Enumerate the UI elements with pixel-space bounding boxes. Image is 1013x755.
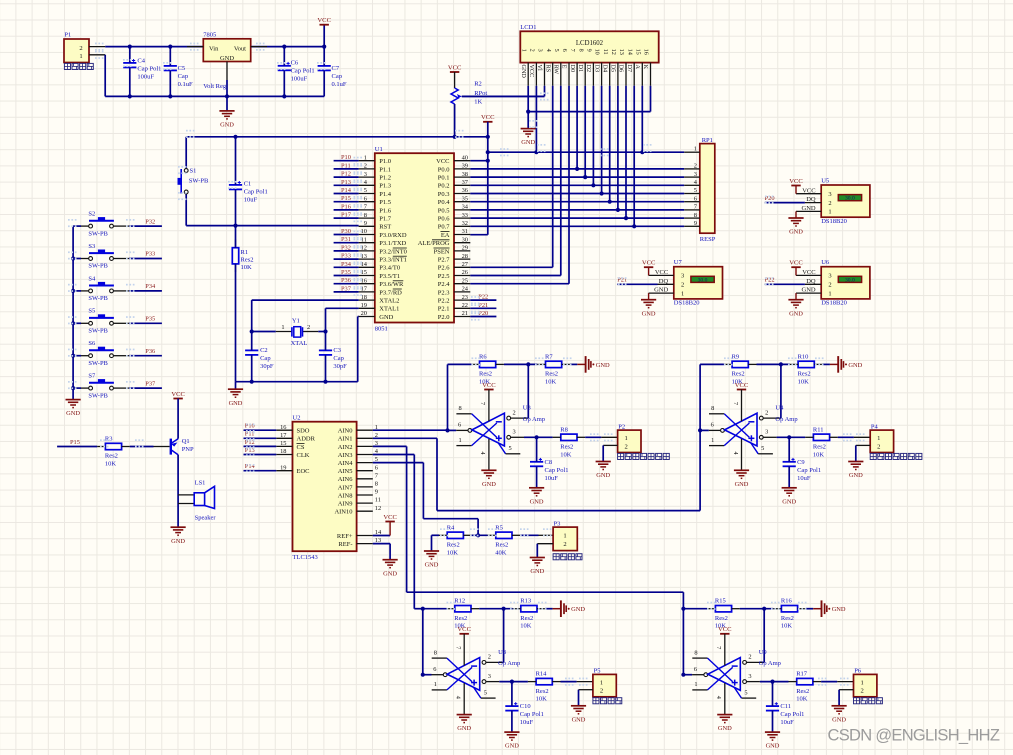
svg-text:R17: R17 — [796, 671, 808, 678]
svg-text:P35: P35 — [341, 269, 351, 276]
svg-text:10K: 10K — [447, 549, 459, 556]
svg-text:Op Amp: Op Amp — [775, 416, 797, 423]
svg-text:S5: S5 — [88, 308, 95, 315]
svg-text:R14: R14 — [536, 671, 548, 678]
svg-text:6: 6 — [694, 666, 697, 673]
svg-text:E: E — [561, 65, 568, 69]
svg-text:P1.3: P1.3 — [379, 183, 391, 190]
svg-text:P36: P36 — [341, 277, 351, 284]
svg-text:U6: U6 — [821, 259, 830, 266]
svg-text:8: 8 — [694, 212, 697, 219]
svg-text:2: 2 — [600, 688, 603, 695]
svg-text:Op Amp: Op Amp — [523, 416, 545, 423]
svg-text:8: 8 — [375, 481, 378, 488]
svg-text:30.0: 30.0 — [845, 196, 855, 202]
svg-text:40: 40 — [462, 154, 468, 161]
svg-text:Cap: Cap — [178, 73, 188, 80]
svg-text:9: 9 — [586, 49, 593, 52]
svg-text:GND: GND — [520, 65, 527, 79]
svg-text:15: 15 — [280, 440, 286, 447]
svg-text:P3: P3 — [554, 520, 561, 527]
svg-text:R2: R2 — [474, 81, 482, 88]
svg-text:1: 1 — [711, 437, 714, 444]
svg-text:2: 2 — [488, 654, 491, 661]
svg-text:R3: R3 — [105, 436, 113, 443]
svg-text:P30: P30 — [341, 228, 351, 235]
svg-text:SW-PB: SW-PB — [88, 392, 108, 399]
svg-text:10K: 10K — [781, 623, 793, 630]
svg-text:GND: GND — [482, 481, 496, 488]
svg-text:30.0: 30.0 — [845, 277, 855, 283]
svg-text:GND: GND — [220, 122, 234, 129]
svg-text:GND: GND — [383, 570, 397, 577]
svg-text:100uF: 100uF — [137, 74, 154, 81]
svg-text:Res2: Res2 — [454, 615, 467, 622]
svg-text:GND: GND — [848, 362, 862, 369]
svg-text:R4: R4 — [447, 524, 455, 531]
svg-text:P0.1: P0.1 — [438, 175, 450, 182]
svg-text:14: 14 — [626, 49, 633, 55]
svg-text:Res2: Res2 — [798, 371, 811, 378]
svg-text:VCC: VCC — [436, 158, 449, 165]
svg-text:Cap Pol1: Cap Pol1 — [291, 67, 315, 74]
svg-text:GND: GND — [425, 562, 439, 569]
svg-text:VCC: VCC — [802, 269, 815, 276]
svg-text:P3.3/INT1: P3.3/INT1 — [379, 257, 407, 264]
svg-text:GND: GND — [766, 743, 780, 750]
svg-text:8: 8 — [434, 649, 437, 656]
svg-text:P32: P32 — [341, 244, 351, 251]
svg-text:1: 1 — [828, 290, 831, 297]
svg-text:C8: C8 — [545, 459, 553, 466]
svg-text:VCC: VCC — [642, 260, 656, 267]
svg-text:U4: U4 — [775, 405, 784, 412]
svg-text:10K: 10K — [545, 378, 557, 385]
svg-text:P1.0: P1.0 — [379, 158, 391, 165]
svg-text:3: 3 — [765, 429, 768, 436]
svg-text:10K: 10K — [520, 623, 532, 630]
svg-text:D0: D0 — [569, 65, 576, 73]
svg-text:R6: R6 — [479, 353, 487, 360]
svg-text:P4: P4 — [871, 423, 879, 430]
svg-text:P33: P33 — [145, 251, 155, 258]
svg-text:GND: GND — [521, 139, 535, 146]
svg-text:AIN1: AIN1 — [338, 436, 353, 443]
svg-text:Res2: Res2 — [447, 542, 460, 549]
svg-text:12: 12 — [375, 505, 381, 512]
svg-text:Res2: Res2 — [813, 444, 826, 451]
svg-text:Cap: Cap — [332, 73, 342, 80]
svg-text:S6: S6 — [88, 340, 96, 347]
svg-text:GND: GND — [802, 205, 816, 212]
svg-text:P15: P15 — [341, 195, 351, 202]
svg-text:D3: D3 — [593, 65, 600, 73]
svg-text:28: 28 — [462, 253, 468, 260]
svg-text:P6: P6 — [854, 668, 862, 675]
svg-text:S3: S3 — [88, 243, 95, 250]
svg-text:10K: 10K — [536, 696, 548, 703]
svg-text:REF+: REF+ — [337, 533, 353, 540]
svg-text:C6: C6 — [291, 59, 299, 66]
svg-text:26: 26 — [462, 269, 468, 276]
svg-text:GND: GND — [718, 725, 732, 732]
svg-text:P16: P16 — [341, 203, 351, 210]
svg-text:3: 3 — [537, 49, 544, 52]
svg-text:D6: D6 — [618, 65, 625, 73]
svg-text:2: 2 — [681, 282, 684, 289]
svg-text:P0.2: P0.2 — [438, 183, 450, 190]
svg-text:13: 13 — [618, 49, 625, 55]
svg-text:VCC: VCC — [718, 626, 732, 633]
svg-text:P20: P20 — [478, 310, 488, 317]
svg-text:P36: P36 — [145, 348, 155, 355]
svg-text:DQ: DQ — [806, 196, 816, 203]
svg-text:DQ: DQ — [806, 278, 816, 285]
svg-text:35: 35 — [462, 195, 468, 202]
svg-text:8: 8 — [711, 405, 714, 412]
svg-text:21: 21 — [462, 310, 468, 317]
svg-text:10uF: 10uF — [244, 196, 258, 203]
svg-text:3: 3 — [828, 273, 831, 280]
svg-text:GND: GND — [171, 538, 185, 545]
svg-text:P22: P22 — [478, 294, 488, 301]
svg-text:GND: GND — [789, 229, 803, 236]
svg-text:8: 8 — [364, 212, 367, 219]
svg-text:2: 2 — [694, 163, 697, 170]
svg-text:AIN4: AIN4 — [338, 460, 354, 467]
svg-text:10: 10 — [594, 49, 601, 55]
svg-text:GND: GND — [457, 725, 471, 732]
svg-text:1: 1 — [364, 154, 367, 161]
svg-text:3: 3 — [488, 673, 491, 680]
svg-text:20: 20 — [361, 310, 367, 317]
svg-text:1K: 1K — [474, 98, 482, 105]
svg-text:P1.1: P1.1 — [379, 166, 391, 173]
svg-text:29: 29 — [462, 245, 468, 252]
svg-text:D5: D5 — [610, 65, 617, 73]
svg-text:5: 5 — [364, 187, 367, 194]
svg-text:2: 2 — [625, 443, 628, 450]
svg-text:U9: U9 — [759, 649, 767, 656]
svg-text:8: 8 — [459, 405, 462, 412]
svg-text:CSDN @ENGLISH_HHZ: CSDN @ENGLISH_HHZ — [828, 727, 1000, 745]
svg-text:DS18B20: DS18B20 — [821, 218, 847, 225]
svg-text:10K: 10K — [105, 461, 117, 468]
svg-text:VCC: VCC — [528, 65, 535, 78]
svg-text:1: 1 — [694, 145, 697, 152]
svg-text:Cap Pol1: Cap Pol1 — [244, 188, 268, 195]
svg-text:10uF: 10uF — [780, 719, 794, 726]
svg-text:VCC: VCC — [482, 382, 496, 389]
svg-text:P32: P32 — [145, 218, 155, 225]
svg-text:Res2: Res2 — [479, 371, 492, 378]
svg-text:Cap Pol1: Cap Pol1 — [520, 711, 544, 718]
svg-text:6: 6 — [458, 422, 461, 429]
svg-text:S7: S7 — [88, 373, 96, 380]
svg-text:19: 19 — [280, 464, 286, 471]
svg-text:10uF: 10uF — [520, 719, 534, 726]
svg-text:2: 2 — [529, 49, 536, 52]
svg-text:5: 5 — [744, 690, 747, 697]
svg-text:Res2: Res2 — [715, 615, 728, 622]
svg-text:P1.7: P1.7 — [379, 216, 391, 223]
svg-text:10K: 10K — [796, 696, 808, 703]
svg-text:30.0: 30.0 — [698, 277, 708, 283]
svg-text:D1: D1 — [577, 65, 584, 73]
svg-text:XTAL2: XTAL2 — [379, 298, 399, 305]
svg-text:U5: U5 — [821, 177, 829, 184]
svg-text:RP1: RP1 — [702, 137, 713, 144]
svg-text:GND: GND — [642, 310, 656, 317]
svg-text:2: 2 — [860, 688, 863, 695]
svg-text:30pF: 30pF — [333, 363, 347, 370]
svg-text:2: 2 — [877, 443, 880, 450]
svg-text:SW-PB: SW-PB — [189, 177, 209, 184]
svg-text:Op Amp: Op Amp — [759, 660, 781, 667]
svg-text:S2: S2 — [88, 211, 95, 218]
svg-text:GND: GND — [789, 310, 803, 317]
svg-text:P31: P31 — [341, 236, 351, 243]
svg-text:P1: P1 — [64, 31, 71, 38]
svg-text:37: 37 — [462, 179, 469, 186]
svg-text:AIN0: AIN0 — [338, 428, 353, 435]
svg-text:RW: RW — [553, 65, 560, 75]
svg-text:10K: 10K — [560, 451, 572, 458]
svg-text:D2: D2 — [585, 65, 592, 73]
svg-text:9: 9 — [364, 220, 367, 227]
svg-text:P17: P17 — [341, 212, 352, 219]
svg-text:7: 7 — [715, 646, 722, 649]
svg-text:10uF: 10uF — [797, 475, 811, 482]
svg-text:PSEN: PSEN — [434, 248, 450, 255]
svg-text:C11: C11 — [780, 703, 791, 710]
svg-text:Cap Pol1: Cap Pol1 — [545, 467, 569, 474]
svg-text:100uF: 100uF — [291, 75, 308, 82]
svg-text:D7: D7 — [626, 65, 633, 73]
svg-text:SW-PB: SW-PB — [88, 360, 108, 367]
svg-text:1: 1 — [434, 681, 437, 688]
svg-text:GND: GND — [802, 287, 816, 294]
svg-text:3: 3 — [513, 429, 516, 436]
svg-text:PNP: PNP — [182, 446, 194, 453]
svg-text:Volt Reg: Volt Reg — [203, 83, 227, 90]
svg-text:P5: P5 — [594, 668, 601, 675]
svg-text:C7: C7 — [332, 65, 340, 72]
svg-text:C10: C10 — [520, 703, 531, 710]
svg-text:C4: C4 — [137, 58, 145, 65]
svg-text:6: 6 — [694, 195, 697, 202]
svg-text:SW-PB: SW-PB — [88, 230, 108, 237]
svg-text:S4: S4 — [88, 275, 96, 282]
svg-text:CS: CS — [297, 444, 305, 451]
svg-text:P12: P12 — [341, 171, 351, 178]
svg-text:Res2: Res2 — [545, 371, 558, 378]
svg-text:3: 3 — [828, 191, 831, 198]
svg-text:A: A — [634, 65, 641, 70]
svg-text:DS18B20: DS18B20 — [821, 300, 847, 307]
svg-text:8051: 8051 — [375, 325, 388, 332]
svg-text:6: 6 — [711, 422, 714, 429]
svg-text:P2.4: P2.4 — [438, 281, 450, 288]
svg-text:C1: C1 — [244, 180, 252, 187]
svg-text:K: K — [642, 65, 649, 70]
svg-text:VCC: VCC — [481, 114, 495, 121]
svg-text:5: 5 — [761, 445, 764, 452]
svg-text:38: 38 — [462, 171, 468, 178]
svg-text:P0.4: P0.4 — [438, 199, 450, 206]
svg-text:3: 3 — [748, 673, 751, 680]
svg-text:25: 25 — [462, 277, 468, 284]
svg-text:P34: P34 — [145, 283, 156, 290]
svg-text:4: 4 — [715, 696, 722, 699]
svg-text:Res2: Res2 — [536, 688, 549, 695]
svg-text:XTAL1: XTAL1 — [379, 306, 399, 313]
svg-text:2: 2 — [765, 409, 768, 416]
svg-text:R16: R16 — [781, 598, 793, 605]
svg-text:11: 11 — [375, 497, 381, 504]
svg-text:1: 1 — [520, 49, 527, 52]
svg-text:P2.6: P2.6 — [438, 265, 450, 272]
svg-text:Res2: Res2 — [560, 444, 573, 451]
svg-text:REF-: REF- — [338, 541, 352, 548]
svg-text:ADDR: ADDR — [297, 436, 316, 443]
svg-text:P2: P2 — [618, 423, 625, 430]
svg-text:GND: GND — [505, 743, 519, 750]
svg-text:22: 22 — [462, 302, 468, 309]
svg-text:R12: R12 — [454, 598, 465, 605]
svg-text:18: 18 — [280, 448, 286, 455]
svg-text:P0.3: P0.3 — [438, 191, 450, 198]
svg-text:CLK: CLK — [297, 452, 310, 459]
svg-text:GND: GND — [654, 287, 668, 294]
svg-text:P0.6: P0.6 — [438, 216, 450, 223]
svg-text:U3: U3 — [523, 405, 531, 412]
svg-text:D4: D4 — [601, 65, 608, 73]
svg-text:GND: GND — [229, 400, 243, 407]
svg-text:1: 1 — [877, 435, 880, 442]
svg-text:7: 7 — [455, 646, 462, 649]
svg-text:33: 33 — [462, 212, 468, 219]
svg-text:GND: GND — [220, 55, 234, 62]
svg-text:5: 5 — [484, 690, 487, 697]
svg-text:AIN6: AIN6 — [338, 476, 354, 483]
svg-text:1: 1 — [860, 679, 863, 686]
svg-text:P37: P37 — [145, 380, 156, 387]
svg-text:Vl: Vl — [536, 65, 543, 71]
svg-text:Cap Pol1: Cap Pol1 — [137, 66, 161, 73]
svg-text:P13: P13 — [341, 179, 351, 186]
svg-text:VCC: VCC — [735, 382, 749, 389]
svg-text:VCC: VCC — [171, 391, 185, 398]
svg-text:1: 1 — [694, 681, 697, 688]
svg-text:P35: P35 — [145, 316, 155, 323]
svg-text:P11: P11 — [341, 162, 351, 169]
svg-text:P3.2/INT0: P3.2/INT0 — [379, 248, 407, 255]
svg-text:2: 2 — [364, 163, 367, 170]
svg-text:31: 31 — [462, 228, 468, 235]
svg-text:P2.2: P2.2 — [438, 298, 450, 305]
svg-text:LCD1: LCD1 — [520, 24, 536, 31]
svg-text:C3: C3 — [333, 347, 341, 354]
svg-text:P34: P34 — [341, 261, 352, 268]
svg-text:R13: R13 — [520, 598, 531, 605]
svg-text:3: 3 — [364, 171, 367, 178]
svg-text:Op Amp: Op Amp — [498, 660, 520, 667]
svg-text:7: 7 — [732, 402, 739, 405]
svg-text:R10: R10 — [798, 353, 809, 360]
svg-text:EOC: EOC — [297, 468, 310, 475]
svg-text:8: 8 — [694, 649, 697, 656]
svg-text:23: 23 — [462, 294, 468, 301]
svg-text:C5: C5 — [178, 65, 186, 72]
svg-text:AIN5: AIN5 — [338, 468, 353, 475]
svg-text:2: 2 — [307, 324, 310, 331]
svg-text:1: 1 — [459, 437, 462, 444]
svg-text:4: 4 — [732, 452, 739, 455]
svg-text:0.1uF: 0.1uF — [332, 81, 347, 88]
svg-text:S1: S1 — [190, 168, 197, 175]
svg-text:1: 1 — [625, 435, 628, 442]
svg-text:6: 6 — [364, 195, 367, 202]
svg-text:AIN8: AIN8 — [338, 492, 353, 499]
svg-text:16: 16 — [280, 424, 286, 431]
svg-text:10K: 10K — [813, 451, 825, 458]
svg-text:LS1: LS1 — [195, 480, 206, 487]
svg-text:C2: C2 — [260, 347, 268, 354]
svg-text:GND: GND — [735, 481, 749, 488]
svg-text:12: 12 — [610, 49, 617, 55]
svg-text:P0.5: P0.5 — [438, 207, 450, 214]
svg-text:15: 15 — [634, 49, 641, 55]
svg-text:GND: GND — [572, 716, 586, 723]
svg-text:R5: R5 — [495, 524, 503, 531]
svg-text:8: 8 — [577, 49, 584, 52]
svg-text:AIN2: AIN2 — [338, 444, 353, 451]
svg-text:P2.5: P2.5 — [438, 273, 450, 280]
svg-text:1: 1 — [600, 679, 603, 686]
svg-text:6: 6 — [561, 49, 568, 52]
svg-text:GND: GND — [832, 606, 846, 613]
svg-text:TLC1543: TLC1543 — [293, 554, 318, 561]
svg-text:R11: R11 — [813, 426, 824, 433]
svg-text:7: 7 — [479, 402, 486, 405]
svg-text:SW-PB: SW-PB — [88, 263, 108, 270]
svg-text:AIN3: AIN3 — [338, 452, 353, 459]
svg-text:R1: R1 — [241, 249, 249, 256]
svg-text:2: 2 — [828, 200, 831, 207]
svg-text:AIN7: AIN7 — [338, 484, 354, 491]
svg-text:VCC: VCC — [789, 260, 803, 267]
svg-text:GND: GND — [571, 606, 585, 613]
svg-text:40K: 40K — [495, 549, 507, 556]
svg-text:4: 4 — [455, 696, 462, 699]
svg-text:1: 1 — [79, 53, 82, 60]
svg-text:9: 9 — [694, 220, 697, 227]
svg-text:R15: R15 — [715, 598, 726, 605]
svg-text:RS: RS — [544, 65, 551, 73]
svg-text:32: 32 — [462, 220, 468, 227]
svg-text:GND: GND — [530, 498, 544, 505]
svg-text:10uF: 10uF — [545, 475, 559, 482]
svg-text:10K: 10K — [241, 264, 253, 271]
svg-text:P33: P33 — [341, 253, 351, 260]
svg-text:SW-PB: SW-PB — [88, 295, 108, 302]
svg-text:SDO: SDO — [297, 428, 310, 435]
svg-text:Y1: Y1 — [292, 317, 300, 324]
svg-text:Res2: Res2 — [241, 257, 254, 264]
svg-text:2: 2 — [748, 654, 751, 661]
svg-text:GND: GND — [782, 498, 796, 505]
